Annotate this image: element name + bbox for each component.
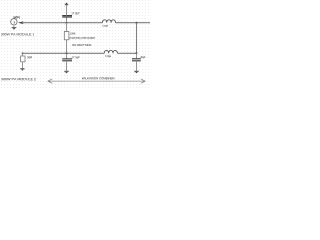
text 300W PA MODULE 2 xyxy=(1,78,36,80)
inductor L2 74nH bottom xyxy=(104,50,117,53)
ground below C3 xyxy=(134,70,139,73)
wire: R2 bottom to ground xyxy=(22,62,24,69)
port P1 label 50R xyxy=(14,16,20,18)
wire: vertical from node B to node D xyxy=(136,23,138,54)
label R1 100R xyxy=(70,33,75,35)
wire: node A down to R1 xyxy=(66,23,68,32)
ground below C2 xyxy=(64,70,69,73)
ground below R2 xyxy=(20,67,24,70)
label L1 74nH xyxy=(102,25,108,27)
resistor R1 100R dummy xyxy=(64,32,69,40)
capacitor C2 17.5pF shunt at node C xyxy=(66,53,68,59)
label R1 power rating xyxy=(70,37,96,40)
port P1 arrow xyxy=(18,21,23,24)
capacitor C3 35pF shunt at node D xyxy=(136,53,138,59)
port P1 circle (300W PA MODULE 1 source) xyxy=(11,19,17,25)
text 300W PA MODULE 1 xyxy=(1,33,34,35)
wire: top branch from port P1 to right edge xyxy=(22,22,150,24)
junction node at R2 pin xyxy=(22,53,24,55)
resistor R2 50R (300W PA MODULE 2) xyxy=(21,56,25,62)
label R1 heatsink note xyxy=(72,44,91,46)
ground above C1 xyxy=(65,3,69,6)
wire: bottom branch y=53 xyxy=(23,52,138,54)
junction node A xyxy=(66,22,68,24)
label C1 17.5pF xyxy=(72,12,80,15)
inductor L1 74nH top xyxy=(102,20,115,23)
dimension arrow under WILKINSON COMBINER xyxy=(48,80,145,82)
wire: port P1 ground stub xyxy=(13,25,15,27)
capacitor C1 17.5pF shunt at node A xyxy=(66,17,68,23)
junction node D xyxy=(136,53,138,55)
label C3 35pF xyxy=(140,56,145,59)
label C2 17.5pF xyxy=(72,56,80,59)
junction node B xyxy=(136,22,138,24)
wire: stub from bottom wire to R2 xyxy=(22,53,24,56)
wire: R1 bottom to node C xyxy=(66,40,68,53)
ground below port P1 xyxy=(12,26,17,29)
text WILKINSON COMBINER xyxy=(82,77,115,79)
label R2 50R xyxy=(27,56,32,58)
junction node C xyxy=(66,53,68,55)
label L2 74nH xyxy=(105,55,111,57)
